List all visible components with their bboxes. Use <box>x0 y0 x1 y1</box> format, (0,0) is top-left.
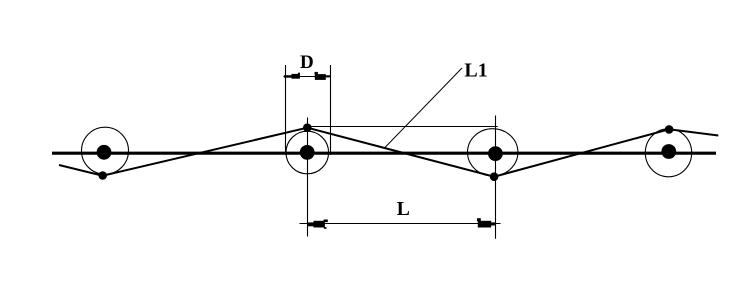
strand node dot above circle D <box>665 125 674 134</box>
svg-text:D: D <box>300 52 314 73</box>
wire cross-section circle C <box>468 129 518 176</box>
extension line right of dimension D <box>330 65 332 155</box>
arrowhead right of dimension L <box>477 218 495 227</box>
wire cross-section circle D <box>645 129 691 177</box>
arrowhead right of dimension D <box>315 72 331 80</box>
strand node dot below circle A <box>98 171 107 180</box>
strand node dot below circle C <box>490 172 499 181</box>
center line through circle B (extension for L) <box>307 118 309 237</box>
wire cross-section circle A <box>82 127 129 174</box>
center dot of circle B <box>300 145 315 160</box>
center dot of circle C <box>488 146 503 161</box>
svg-text:L: L <box>397 199 410 220</box>
center line through circle C (extension for L) <box>495 116 497 239</box>
arrowhead left of dimension L <box>308 220 328 229</box>
strand node dot above circle B <box>303 123 312 132</box>
dimension line L <box>300 223 501 225</box>
dimension line D <box>284 76 331 78</box>
svg-text:L1: L1 <box>464 59 487 81</box>
center dot of circle D <box>661 144 676 159</box>
wire cross-section circle B <box>286 131 329 174</box>
thin reference line from top dot to circle C wire <box>307 126 497 128</box>
center dot of circle A <box>97 145 112 160</box>
leader line for L1 <box>384 68 462 148</box>
extension line left of dimension D <box>285 65 287 155</box>
arrowhead left of dimension D <box>284 73 300 79</box>
strand zigzag line L1 <box>59 128 718 177</box>
center axis line (thick horizontal) <box>52 152 716 155</box>
